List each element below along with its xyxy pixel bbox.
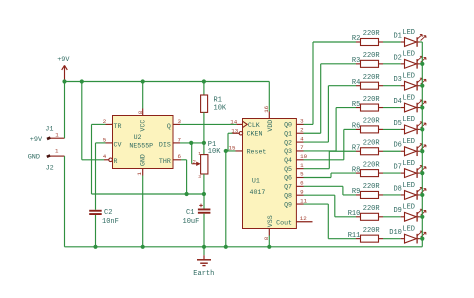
svg-text:Earth: Earth bbox=[193, 270, 214, 278]
svg-text:LED: LED bbox=[402, 51, 415, 59]
svg-text:3: 3 bbox=[178, 118, 182, 125]
svg-text:TR: TR bbox=[114, 123, 122, 130]
svg-text:VCC: VCC bbox=[139, 120, 146, 132]
svg-text:R3: R3 bbox=[352, 57, 360, 65]
svg-text:J2: J2 bbox=[46, 164, 54, 172]
svg-text:CV: CV bbox=[114, 141, 122, 148]
svg-text:1: 1 bbox=[198, 151, 201, 157]
svg-text:Q9: Q9 bbox=[284, 201, 292, 208]
svg-text:8: 8 bbox=[263, 236, 270, 240]
svg-text:DIS: DIS bbox=[159, 141, 171, 148]
svg-text:Q4: Q4 bbox=[284, 157, 292, 164]
svg-text:R6: R6 bbox=[352, 123, 360, 131]
svg-text:LED: LED bbox=[402, 138, 415, 146]
svg-text:1: 1 bbox=[300, 162, 304, 169]
svg-text:Q6: Q6 bbox=[284, 175, 292, 182]
svg-text:THR: THR bbox=[159, 158, 171, 165]
svg-text:LED: LED bbox=[402, 94, 415, 102]
svg-text:R: R bbox=[114, 158, 118, 165]
svg-text:14: 14 bbox=[230, 119, 237, 126]
svg-text:7: 7 bbox=[300, 144, 304, 151]
svg-text:4017: 4017 bbox=[250, 189, 266, 196]
svg-text:220R: 220R bbox=[363, 96, 381, 104]
svg-text:11: 11 bbox=[300, 197, 307, 204]
svg-text:2: 2 bbox=[193, 160, 196, 166]
svg-text:C2: C2 bbox=[104, 209, 112, 217]
svg-text:220R: 220R bbox=[363, 139, 381, 147]
svg-text:10nF: 10nF bbox=[102, 218, 119, 226]
svg-text:Q7: Q7 bbox=[284, 184, 292, 191]
svg-text:D3: D3 bbox=[393, 76, 401, 84]
svg-text:D8: D8 bbox=[393, 185, 401, 193]
svg-text:CKEN: CKEN bbox=[247, 130, 263, 137]
svg-text:Q3: Q3 bbox=[284, 148, 292, 155]
svg-text:220R: 220R bbox=[363, 52, 381, 60]
svg-text:D9: D9 bbox=[393, 207, 401, 215]
svg-text:D1: D1 bbox=[393, 32, 401, 40]
svg-text:13: 13 bbox=[231, 127, 238, 134]
svg-text:D4: D4 bbox=[393, 98, 401, 106]
svg-text:3: 3 bbox=[300, 118, 304, 125]
svg-text:220R: 220R bbox=[363, 227, 381, 235]
svg-text:Q2: Q2 bbox=[284, 139, 292, 146]
svg-text:R11: R11 bbox=[348, 232, 361, 240]
svg-text:9: 9 bbox=[300, 188, 304, 195]
svg-text:Q0: Q0 bbox=[284, 122, 292, 129]
svg-text:3: 3 bbox=[198, 174, 201, 180]
svg-text:LED: LED bbox=[402, 29, 415, 37]
svg-text:10K: 10K bbox=[214, 104, 227, 112]
svg-text:R1: R1 bbox=[214, 97, 222, 105]
svg-text:C1: C1 bbox=[186, 209, 194, 217]
svg-text:220R: 220R bbox=[363, 118, 381, 126]
svg-text:Cout: Cout bbox=[276, 219, 292, 226]
svg-text:15: 15 bbox=[229, 144, 236, 151]
svg-text:6: 6 bbox=[178, 153, 182, 160]
svg-text:16: 16 bbox=[263, 105, 270, 112]
svg-text:10: 10 bbox=[300, 153, 307, 160]
svg-text:220R: 220R bbox=[363, 74, 381, 82]
svg-text:+9V: +9V bbox=[30, 136, 43, 144]
svg-text:GND: GND bbox=[28, 154, 40, 162]
svg-text:+9V: +9V bbox=[57, 56, 70, 64]
svg-text:12: 12 bbox=[300, 215, 307, 222]
svg-text:R4: R4 bbox=[352, 79, 360, 87]
svg-text:Reset: Reset bbox=[247, 148, 267, 155]
svg-text:GND: GND bbox=[139, 154, 146, 166]
svg-text:LED: LED bbox=[402, 73, 415, 81]
svg-text:D5: D5 bbox=[393, 120, 401, 128]
svg-text:R5: R5 bbox=[352, 101, 360, 109]
svg-text:4: 4 bbox=[103, 153, 107, 160]
svg-text:J1: J1 bbox=[45, 125, 53, 133]
svg-text:6: 6 bbox=[300, 180, 304, 187]
svg-text:10uF: 10uF bbox=[183, 218, 200, 226]
svg-text:R9: R9 bbox=[352, 188, 360, 196]
svg-text:LED: LED bbox=[402, 182, 415, 190]
svg-text:Q: Q bbox=[167, 123, 171, 130]
svg-text:2: 2 bbox=[300, 126, 304, 133]
svg-text:LED: LED bbox=[402, 225, 415, 233]
svg-text:U2: U2 bbox=[134, 134, 142, 141]
svg-text:10K: 10K bbox=[208, 148, 221, 156]
svg-text:1: 1 bbox=[136, 172, 143, 176]
svg-text:R10: R10 bbox=[348, 210, 361, 218]
svg-text:LED: LED bbox=[402, 160, 415, 168]
svg-text:220R: 220R bbox=[363, 30, 381, 38]
svg-text:7: 7 bbox=[178, 136, 182, 143]
svg-text:LED: LED bbox=[402, 204, 415, 212]
svg-text:R8: R8 bbox=[352, 166, 360, 174]
svg-text:D10: D10 bbox=[389, 229, 402, 237]
svg-text:R2: R2 bbox=[352, 35, 360, 43]
svg-text:D6: D6 bbox=[393, 142, 401, 150]
svg-text:D2: D2 bbox=[393, 54, 401, 62]
svg-text:Q1: Q1 bbox=[284, 130, 292, 137]
svg-text:220R: 220R bbox=[363, 205, 381, 213]
svg-text:R7: R7 bbox=[352, 144, 360, 152]
svg-text:LED: LED bbox=[402, 116, 415, 124]
svg-text:NE555P: NE555P bbox=[129, 142, 153, 149]
svg-text:4: 4 bbox=[300, 135, 304, 142]
svg-text:VSS: VSS bbox=[267, 215, 274, 227]
svg-text:1: 1 bbox=[55, 132, 59, 139]
svg-text:220R: 220R bbox=[363, 183, 381, 191]
svg-text:CLK: CLK bbox=[248, 122, 260, 129]
svg-text:5: 5 bbox=[103, 136, 107, 143]
svg-text:220R: 220R bbox=[363, 161, 381, 169]
svg-text:2: 2 bbox=[103, 118, 107, 125]
svg-text:1: 1 bbox=[55, 148, 59, 155]
svg-text:D7: D7 bbox=[393, 164, 401, 172]
svg-text:VDD: VDD bbox=[267, 120, 274, 132]
svg-text:Q5: Q5 bbox=[284, 166, 292, 173]
svg-text:8: 8 bbox=[137, 110, 144, 114]
svg-text:U1: U1 bbox=[252, 177, 260, 184]
svg-text:5: 5 bbox=[300, 171, 304, 178]
svg-text:Q8: Q8 bbox=[284, 192, 292, 199]
